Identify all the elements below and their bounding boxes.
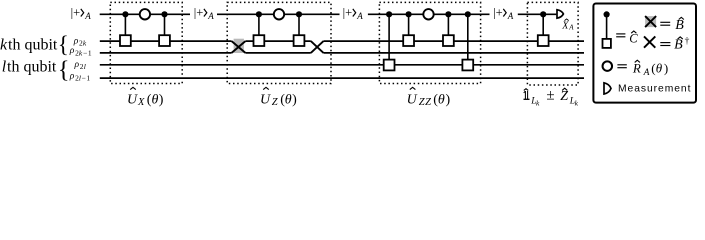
svg-text:−: − bbox=[83, 48, 87, 57]
gate C square 2 on rho_2k in U_ZZ bbox=[443, 11, 454, 46]
svg-text:k: k bbox=[0, 37, 8, 54]
gate C square 1 on rho_2k in U_ZZ bbox=[403, 11, 414, 46]
dashed box measurement bbox=[527, 2, 578, 85]
gate C square on rho_2l (right) in U_ZZ bbox=[462, 11, 473, 70]
legend gate B-dagger symbol (cross) bbox=[644, 36, 655, 47]
legend op R_A(theta) circle bbox=[603, 61, 613, 71]
legend label = B-dagger hat bbox=[660, 37, 689, 53]
node ket |+>_A label 1 bbox=[71, 6, 92, 22]
svg-text:Z: Z bbox=[560, 89, 568, 104]
svg-text:C: C bbox=[629, 32, 638, 46]
svg-text:U: U bbox=[127, 93, 138, 108]
svg-text:Z: Z bbox=[272, 97, 278, 108]
gate C square on rho_2l (left) in U_ZZ bbox=[384, 11, 395, 70]
label X_A hat bbox=[561, 19, 574, 32]
svg-text:th qubit: th qubit bbox=[8, 37, 58, 54]
label U_X(theta) bbox=[127, 87, 164, 108]
op R_A(theta) circle in U_Z bbox=[274, 9, 284, 19]
gate B-dagger (cross) on k pair bbox=[311, 41, 324, 53]
legend label = B hat bbox=[660, 17, 684, 33]
measurement symbol on ancilla bbox=[557, 10, 563, 19]
svg-text:ρ: ρ bbox=[69, 46, 75, 56]
svg-text:U: U bbox=[260, 93, 271, 108]
dashed box U_ZZ bbox=[379, 2, 480, 83]
gate C square 2 on k rail in U_Z bbox=[294, 11, 305, 46]
wire qubit rho_2k bbox=[100, 40, 584, 42]
svg-text:θ: θ bbox=[656, 61, 663, 76]
svg-text:): ) bbox=[664, 61, 668, 76]
svg-text:): ) bbox=[159, 93, 164, 108]
legend box bbox=[593, 4, 696, 103]
wire ancilla segment 1 bbox=[100, 13, 190, 15]
svg-text:): ) bbox=[292, 93, 297, 108]
op R_A(theta) circle in U_ZZ bbox=[423, 9, 433, 19]
node ket |+>_A label 3 bbox=[343, 6, 364, 22]
svg-text:ρ: ρ bbox=[69, 71, 75, 81]
wire ancilla segment 2 bbox=[217, 13, 340, 15]
svg-text:l: l bbox=[84, 62, 86, 71]
legend gate B symbol (shaded cross) bbox=[645, 16, 656, 27]
svg-text:θ: θ bbox=[285, 93, 292, 108]
node ket |+>_A label 2 bbox=[194, 6, 215, 22]
gate C square 2 on rho_2k in U_X bbox=[159, 11, 170, 46]
svg-text:th qubit: th qubit bbox=[7, 59, 57, 76]
svg-text:1: 1 bbox=[88, 48, 92, 57]
label U_Z(theta) bbox=[260, 87, 297, 108]
svg-text:): ) bbox=[446, 93, 451, 108]
svg-text:{: { bbox=[58, 57, 70, 84]
gate C square 1 on k rail in U_Z bbox=[254, 11, 265, 46]
label identity_Lk pm Z_Lk bbox=[524, 88, 579, 108]
svg-text:B: B bbox=[675, 18, 684, 33]
svg-text:A: A bbox=[643, 68, 650, 78]
gate B (shaded cross) on k pair bbox=[232, 39, 246, 53]
svg-text:A: A bbox=[568, 24, 574, 32]
gate C square in measurement box bbox=[538, 11, 549, 46]
node kth qubit row label bbox=[0, 32, 69, 57]
wire qubit rho_2l bbox=[100, 64, 584, 66]
svg-text:−: − bbox=[82, 73, 86, 82]
label U_ZZ(theta) bbox=[407, 87, 451, 108]
svg-text:X: X bbox=[561, 20, 569, 31]
node rho_2k label bbox=[73, 37, 87, 48]
legend label = R_A(theta) bbox=[617, 60, 668, 78]
svg-text:X: X bbox=[137, 97, 145, 108]
op R_A(theta) circle in U_X bbox=[140, 9, 150, 19]
node lth qubit row label bbox=[2, 57, 70, 84]
svg-text:1: 1 bbox=[86, 73, 90, 82]
node rho_2l-1 label bbox=[69, 71, 91, 82]
svg-text:B: B bbox=[674, 38, 683, 53]
svg-text:θ: θ bbox=[438, 93, 445, 108]
svg-text:θ: θ bbox=[152, 93, 159, 108]
svg-text:±: ± bbox=[546, 88, 554, 104]
legend label = C hat bbox=[616, 31, 638, 46]
wire qubit rho_2l-1 bbox=[100, 77, 584, 79]
svg-text:{: { bbox=[58, 32, 69, 57]
dashed box U_Z bbox=[227, 2, 331, 83]
legend measurement symbol bbox=[604, 83, 611, 94]
wire ancilla segment 4 bbox=[518, 13, 557, 15]
node ket |+>_A label 4 bbox=[493, 6, 514, 22]
node rho_2l label bbox=[74, 60, 86, 71]
svg-text:ρ: ρ bbox=[74, 60, 80, 70]
gate C square 1 on rho_2k in U_X bbox=[120, 11, 131, 46]
legend gate C symbol bbox=[603, 11, 611, 48]
svg-text:U: U bbox=[407, 93, 418, 108]
svg-text:ρ: ρ bbox=[73, 37, 79, 47]
dashed box U_X bbox=[110, 2, 182, 83]
wire ancilla segment 3 bbox=[368, 13, 490, 15]
node rho_2k-1 label bbox=[69, 46, 92, 57]
svg-text:ZZ: ZZ bbox=[419, 97, 432, 108]
svg-text:Measurement: Measurement bbox=[618, 84, 691, 95]
wire qubit rho_2k-1 bbox=[100, 52, 584, 54]
svg-text:†: † bbox=[685, 37, 690, 47]
